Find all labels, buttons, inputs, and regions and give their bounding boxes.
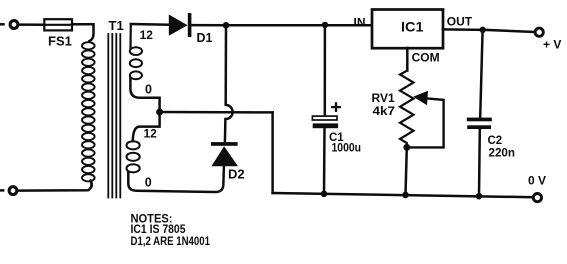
regulator IC1 (7805) box (372, 10, 443, 49)
svg-text:4k7: 4k7 (373, 104, 396, 118)
svg-text:C2: C2 (488, 135, 503, 147)
node C1 top (322, 22, 328, 28)
svg-text:RV1: RV1 (372, 91, 395, 105)
terminal AC input top-left (10, 21, 18, 29)
svg-text:0: 0 (145, 175, 152, 189)
wire C1 bottom lead (323, 128, 326, 194)
svg-text:IN: IN (354, 15, 366, 29)
terminal +V (535, 28, 543, 36)
svg-text:D1,2 ARE 1N4001: D1,2 ARE 1N4001 (131, 234, 211, 248)
wire stub left edge bottom (0, 189, 3, 192)
wire IC1 COM pin (406, 48, 409, 71)
wire stub left edge top (0, 23, 4, 26)
terminal 0V (533, 194, 541, 202)
wire centre-tap node to secondary winding 2 (133, 112, 160, 141)
svg-text:T1: T1 (109, 18, 124, 33)
node C2 bottom (476, 193, 483, 200)
wire C1 top lead (324, 25, 327, 116)
wire IC1 output (443, 28, 483, 31)
wire to +V terminal (483, 30, 534, 32)
svg-text:12: 12 (140, 28, 154, 42)
svg-text:OUT: OUT (447, 15, 473, 29)
diode D2 (211, 142, 238, 166)
wire C2 bottom lead (478, 129, 481, 196)
svg-text:D2: D2 (228, 166, 245, 181)
wire terminal to fuse (20, 23, 45, 26)
svg-text:220n: 220n (489, 147, 516, 159)
terminal AC input bottom-left (9, 187, 17, 195)
potentiometer wiper arrow (409, 91, 444, 148)
resistor RV1 (potentiometer track) (400, 71, 414, 148)
transformer secondary winding 2 (127, 141, 140, 172)
fuse FS1 (44, 19, 72, 30)
node centre tap (156, 109, 163, 116)
transformer T1 primary winding (82, 42, 95, 181)
node RV1 rail junction (402, 192, 409, 199)
wire 0V rail (273, 193, 533, 197)
transformer core (108, 34, 120, 198)
wire centre-tap return horizontal (160, 111, 273, 114)
svg-text:0: 0 (145, 83, 152, 97)
svg-text:+ V: + V (543, 38, 561, 52)
svg-text:D1: D1 (197, 31, 213, 45)
svg-text:IC1: IC1 (401, 19, 424, 34)
wire secondary1 bottom to centre-tap node (130, 79, 159, 113)
node C1 bottom (321, 191, 328, 198)
wire secondary2 bottom to D2 anode (128, 167, 224, 193)
capacitor C2 (467, 118, 492, 129)
wire primary bottom to terminal (19, 181, 92, 191)
wire fuse to transformer primary (72, 24, 94, 41)
diode D1 (169, 13, 192, 37)
wire D2 branch with hop over 0V return (225, 26, 233, 142)
wire secondary1 top to D1 anode (131, 23, 169, 26)
wire D1 cathode to node A (191, 24, 223, 27)
notes text (131, 212, 211, 248)
svg-text:COM: COM (412, 51, 440, 65)
node A (rectifier output junction) (223, 22, 230, 29)
svg-text:12: 12 (144, 127, 158, 141)
polarity + mark C1 (332, 103, 339, 110)
capacitor C1 (electrolytic) (312, 116, 338, 128)
wire node A to IC1 input (226, 24, 372, 27)
wire centre-tap return vertical (271, 112, 274, 193)
node C2 top (480, 27, 486, 33)
transformer secondary winding 1 (130, 24, 142, 79)
svg-text:1000u: 1000u (332, 142, 362, 154)
svg-text:0 V: 0 V (528, 173, 546, 187)
svg-text:FS1: FS1 (48, 33, 72, 48)
node RV1 bottom / wiper (403, 144, 410, 151)
wire C2 top lead (480, 30, 482, 118)
wire RV1 to 0V rail (406, 147, 407, 195)
